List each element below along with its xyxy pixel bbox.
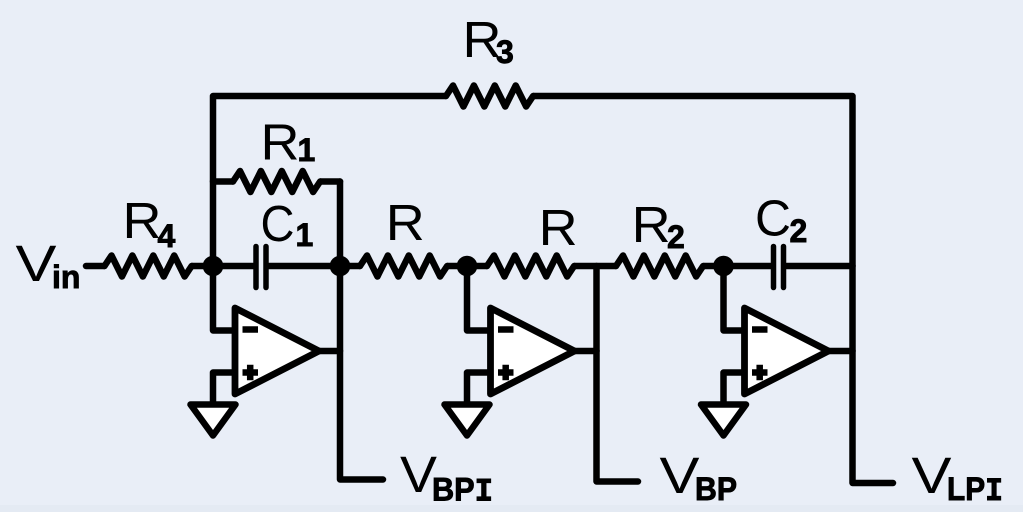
- label VBPI: [400, 446, 493, 511]
- label VLPI: [912, 447, 1004, 510]
- wire Vin lead: [86, 263, 105, 270]
- op-amp U2: [491, 308, 575, 394]
- wire op U3 inverting input: [724, 266, 745, 331]
- wire vertical BP rail from main line down to VBP output: [597, 266, 639, 482]
- svg-text:1: 1: [298, 132, 316, 168]
- node C junction dot: [457, 256, 478, 277]
- svg-text:V: V: [660, 447, 700, 504]
- wire C1 to R first (through node B): [269, 263, 360, 270]
- svg-text:1: 1: [296, 217, 314, 253]
- svg-text:3: 3: [496, 34, 514, 70]
- op-amp U3: [745, 308, 829, 394]
- ground of U2: [445, 405, 490, 436]
- op-amp U1: [235, 308, 319, 394]
- wire op U3 output stub: [829, 348, 853, 355]
- capacitor C2: [774, 247, 784, 288]
- resistor R (second): [487, 256, 574, 277]
- svg-text:R: R: [261, 114, 300, 171]
- svg-text:in: in: [52, 259, 80, 295]
- wire op U2 inverting input: [467, 266, 491, 331]
- resistor R (first): [360, 256, 447, 277]
- node D junction dot: [713, 256, 734, 277]
- wire R2 to C2 (through node D): [704, 263, 771, 270]
- svg-text:BP: BP: [695, 471, 737, 507]
- svg-text:LPI: LPI: [947, 471, 1003, 510]
- resistor R1: [233, 171, 320, 192]
- svg-text:2: 2: [790, 213, 808, 249]
- wire vertical BPI rail from R1 down to VBPI output: [340, 182, 383, 480]
- svg-text:C: C: [261, 195, 295, 252]
- label C1: [261, 195, 314, 253]
- node A junction dot: [203, 256, 224, 277]
- svg-text:R: R: [539, 199, 578, 256]
- node B junction dot: [330, 256, 351, 277]
- label Vin: [16, 235, 81, 295]
- wire R1 right lead down to vertical BPI rail: [321, 178, 341, 185]
- label R3: [463, 11, 514, 70]
- svg-text:R: R: [123, 192, 162, 249]
- resistor R3: [446, 86, 533, 107]
- svg-text:R: R: [386, 194, 425, 251]
- label R2: [632, 196, 685, 255]
- svg-text:BPI: BPI: [432, 472, 493, 511]
- wire R to R (through node C): [448, 263, 488, 270]
- svg-text:V: V: [912, 447, 952, 504]
- wire op U1 non-inverting input to ground: [213, 373, 235, 405]
- ground of U1: [191, 405, 236, 436]
- wire C2 to right rail: [787, 263, 853, 270]
- ground of U3: [701, 405, 746, 436]
- resistor R2: [616, 256, 703, 277]
- svg-text:2: 2: [667, 219, 685, 255]
- wire op U2 output stub: [575, 348, 597, 355]
- wire left rail up to R3 and R3 lead-in: [213, 96, 446, 266]
- label R1: [261, 114, 316, 171]
- resistor R4: [105, 256, 192, 277]
- wire op U1 output stub: [319, 348, 340, 355]
- svg-text:C: C: [755, 190, 791, 247]
- svg-text:V: V: [16, 235, 57, 292]
- wire op U3 non-inverting input to ground: [724, 373, 745, 405]
- label VBP: [660, 447, 738, 507]
- bottom strip shade: [0, 505, 1023, 512]
- label R4: [123, 192, 176, 254]
- label C2: [755, 190, 807, 250]
- wire op U1 inverting input: [213, 266, 235, 331]
- wire R to R2 (through T junction at op2 output): [575, 263, 617, 270]
- wire R4 to C1 (through node A): [192, 263, 253, 270]
- wire R1 left lead: [213, 178, 233, 185]
- capacitor C1: [256, 247, 266, 288]
- wire op U2 non-inverting input to ground: [467, 373, 491, 405]
- svg-text:R: R: [632, 196, 671, 253]
- wire R3 to right rail and rail down to VLPI output: [534, 96, 894, 483]
- svg-text:4: 4: [158, 218, 176, 254]
